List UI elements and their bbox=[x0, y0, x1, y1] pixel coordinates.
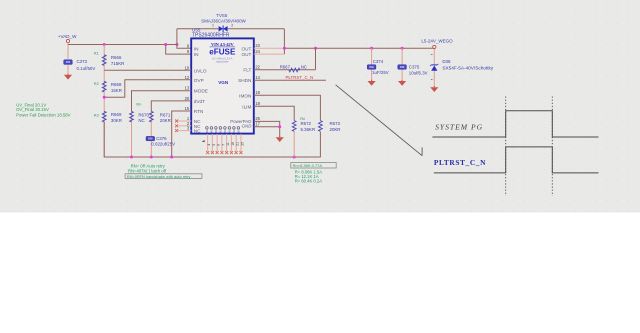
svg-text:IN: IN bbox=[194, 46, 199, 51]
svg-text:20KR: 20KR bbox=[330, 127, 341, 132]
svg-text:SX54F-5A-40V/Schottky: SX54F-5A-40V/Schottky bbox=[442, 66, 493, 71]
wire TVS right bbox=[228, 28, 285, 30]
wire MODE bbox=[132, 91, 192, 112]
note Rn currents bbox=[291, 163, 336, 184]
svg-text:17: 17 bbox=[255, 122, 260, 127]
callout line bbox=[336, 85, 423, 156]
svg-text:DNI: DNI bbox=[369, 65, 374, 69]
svg-text:OUT: OUT bbox=[241, 52, 251, 57]
svg-text:Rn=5.36K 0.77A: Rn=5.36K 0.77A bbox=[293, 163, 323, 168]
node pad-gnd bbox=[278, 125, 281, 128]
svg-text:20: 20 bbox=[185, 96, 190, 101]
svg-text:DNI: DNI bbox=[400, 65, 405, 69]
svg-text:NC: NC bbox=[225, 129, 227, 133]
wire ground bus bbox=[104, 122, 320, 157]
ground C375 bbox=[398, 80, 406, 86]
node OUT-C375 bbox=[401, 47, 404, 50]
node rail-TVS bbox=[175, 43, 178, 46]
svg-text:TVS5: TVS5 bbox=[216, 13, 228, 18]
resistor R667 bbox=[280, 64, 307, 72]
waveform SYSTEM PG bbox=[432, 111, 598, 137]
svg-text:15KR: 15KR bbox=[111, 88, 122, 93]
svg-text:NC: NC bbox=[211, 129, 213, 133]
node label R1 bbox=[94, 50, 99, 55]
ground bbox=[64, 74, 72, 80]
svg-text:C375: C375 bbox=[409, 65, 420, 70]
svg-text:NC: NC bbox=[234, 129, 236, 133]
svg-text:15: 15 bbox=[185, 106, 190, 111]
label PLTRST_C_N wave bbox=[434, 158, 486, 167]
svg-text:UVLO: UVLO bbox=[194, 68, 207, 73]
power flag L5-24V_WEGO bbox=[421, 39, 453, 49]
svg-text:MODE: MODE bbox=[194, 89, 208, 94]
svg-text:adjustable: adjustable bbox=[216, 59, 229, 63]
svg-text:13: 13 bbox=[185, 86, 190, 91]
node label Rn ilim bbox=[300, 116, 305, 121]
node label R3 bbox=[94, 112, 99, 117]
svg-text:7: 7 bbox=[221, 144, 225, 146]
wire dVdT bbox=[151, 101, 191, 111]
svg-text:12: 12 bbox=[185, 75, 190, 80]
svg-text:NC: NC bbox=[301, 65, 307, 70]
svg-text:NC: NC bbox=[238, 129, 240, 133]
label SYSTEM PG bbox=[435, 122, 483, 131]
wire R666 column bbox=[103, 45, 105, 158]
svg-text:DNI: DNI bbox=[148, 137, 153, 141]
svg-text:10uf/6.3V: 10uf/6.3V bbox=[409, 70, 428, 75]
pin names left bbox=[194, 46, 208, 133]
wire R672 bottom bbox=[293, 131, 295, 157]
svg-text:Rn: Rn bbox=[136, 102, 141, 107]
svg-text:NC: NC bbox=[138, 118, 144, 123]
svg-text:11: 11 bbox=[226, 142, 230, 146]
wire UVLO bbox=[104, 69, 191, 71]
pin names right bbox=[230, 46, 252, 128]
svg-text:C374: C374 bbox=[373, 59, 384, 64]
wire +VAD rail bbox=[68, 44, 177, 46]
svg-text:C376: C376 bbox=[156, 136, 167, 141]
svg-text:R667: R667 bbox=[280, 64, 291, 69]
wire TVS left bbox=[177, 28, 219, 30]
resistor R672 bbox=[292, 121, 315, 133]
svg-text:2: 2 bbox=[231, 24, 233, 28]
svg-text:+VAD_W: +VAD_W bbox=[58, 34, 77, 39]
resistor R666 bbox=[102, 55, 124, 66]
wire SHDN bbox=[254, 79, 326, 81]
wire PowerPAD pin25 bbox=[254, 121, 280, 137]
svg-text:5.36KR: 5.36KR bbox=[301, 127, 316, 132]
svg-text:VGN: VGN bbox=[218, 80, 229, 85]
svg-text:Power Fail Detection 18.58V: Power Fail Detection 18.58V bbox=[16, 113, 71, 118]
svg-text:FLT: FLT bbox=[243, 68, 251, 73]
svg-text:R1: R1 bbox=[94, 50, 99, 55]
svg-text:5: 5 bbox=[212, 144, 216, 146]
capacitor C373 bbox=[64, 59, 96, 71]
IC bottom GND pins bbox=[202, 134, 245, 154]
ground C374 bbox=[368, 80, 376, 86]
wire FLT bbox=[254, 48, 316, 69]
svg-text:14: 14 bbox=[255, 75, 260, 80]
svg-text:R670: R670 bbox=[138, 112, 149, 117]
wire TVS out vertical bbox=[283, 29, 285, 54]
node OUT-TVS bbox=[283, 47, 286, 50]
node rail-pin9 bbox=[164, 43, 167, 46]
svg-text:D38: D38 bbox=[442, 59, 451, 64]
node bus-R671 bbox=[150, 156, 153, 159]
svg-text:PLTRST_C_N: PLTRST_C_N bbox=[286, 75, 314, 80]
op-amp U55 eFuse IC body bbox=[191, 28, 254, 134]
wire D38 column bbox=[431, 49, 434, 87]
svg-text:OUT: OUT bbox=[241, 46, 251, 51]
svg-text:RN=0RFN handshake with auto re: RN=0RFN handshake with auto retry bbox=[127, 174, 191, 179]
capacitor C376 bbox=[146, 136, 175, 147]
wire pin8 branch bbox=[177, 29, 191, 49]
svg-text:RN= 0R Auto retry: RN= 0R Auto retry bbox=[131, 163, 166, 168]
wire pin23 stub bbox=[254, 47, 285, 49]
resistor R673 bbox=[319, 121, 341, 133]
svg-text:0.1uf/50V: 0.1uf/50V bbox=[77, 66, 96, 71]
resistor R670 bbox=[130, 111, 150, 123]
svg-text:25: 25 bbox=[255, 116, 260, 121]
node bus-R670 bbox=[130, 156, 133, 159]
wire +VAD_W column bbox=[67, 43, 69, 75]
wire pin24 stub bbox=[254, 53, 285, 55]
svg-text:L5-24V_WEGO: L5-24V_WEGO bbox=[421, 39, 453, 44]
resistor R671 bbox=[149, 111, 170, 123]
svg-text:PLTRST_C_N: PLTRST_C_N bbox=[434, 158, 486, 167]
svg-text:IMON: IMON bbox=[239, 93, 251, 98]
wire GND pin17 bbox=[254, 126, 280, 128]
svg-text:NC: NC bbox=[194, 129, 201, 134]
node OUT-C374 bbox=[370, 47, 373, 50]
svg-text:SYSTEM PG: SYSTEM PG bbox=[435, 122, 483, 131]
svg-text:R666: R666 bbox=[111, 55, 122, 60]
svg-text:10: 10 bbox=[185, 65, 190, 70]
svg-text:1uF/25V: 1uF/25V bbox=[372, 70, 389, 75]
svg-text:C373: C373 bbox=[77, 59, 88, 64]
wire C374 column bbox=[371, 48, 373, 80]
timing guide right bbox=[551, 97, 553, 197]
svg-text:TPS26400RHFR: TPS26400RHFR bbox=[192, 33, 230, 39]
svg-text:R2: R2 bbox=[94, 81, 99, 86]
svg-text:R669: R669 bbox=[111, 112, 122, 117]
node label R2 bbox=[94, 81, 99, 86]
svg-text:dVdT: dVdT bbox=[194, 99, 205, 104]
wire C375 column bbox=[401, 48, 403, 80]
wire IMON bbox=[254, 95, 321, 120]
power flag +VAD_W bbox=[58, 34, 77, 43]
capacitor C375 bbox=[398, 65, 428, 76]
svg-text:R668: R668 bbox=[111, 82, 122, 87]
wire OVP bbox=[104, 80, 191, 97]
svg-text:18: 18 bbox=[255, 90, 260, 95]
node bus-R672 bbox=[293, 156, 296, 159]
svg-text:R671: R671 bbox=[160, 112, 171, 117]
svg-text:715KR: 715KR bbox=[111, 61, 124, 66]
svg-text:NC: NC bbox=[207, 129, 209, 133]
svg-text:VIN 4.5-42V: VIN 4.5-42V bbox=[211, 42, 234, 47]
svg-text:GND: GND bbox=[242, 124, 253, 129]
diode D38 bbox=[430, 59, 494, 71]
svg-text:IN: IN bbox=[194, 52, 199, 57]
svg-text:NC: NC bbox=[220, 129, 222, 133]
wire R670 column bbox=[131, 111, 133, 157]
timing guide left bbox=[505, 97, 507, 197]
svg-text:R3: R3 bbox=[94, 112, 99, 117]
svg-text:22: 22 bbox=[255, 65, 260, 70]
node bus-RTN bbox=[170, 156, 173, 159]
svg-text:16: 16 bbox=[231, 142, 235, 146]
svg-text:OVP: OVP bbox=[194, 78, 204, 83]
svg-text:23: 23 bbox=[255, 43, 260, 48]
wire RTN bbox=[172, 111, 192, 157]
node label Rn mode bbox=[136, 102, 141, 107]
svg-text:RTN: RTN bbox=[194, 109, 204, 114]
svg-text:1: 1 bbox=[212, 24, 214, 28]
svg-text:SMAJ36CA/36V/400W: SMAJ36CA/36V/400W bbox=[201, 19, 246, 24]
pin numbers right bbox=[255, 43, 260, 126]
IC bottom NC pads bbox=[206, 127, 241, 133]
svg-text:19: 19 bbox=[255, 101, 260, 106]
svg-text:eFUSE: eFUSE bbox=[209, 48, 236, 57]
svg-text:6: 6 bbox=[217, 144, 221, 146]
capacitor C374 bbox=[367, 59, 388, 75]
note UV/OV bbox=[16, 102, 71, 117]
svg-text:25: 25 bbox=[240, 142, 244, 146]
svg-text:30KR: 30KR bbox=[111, 118, 122, 123]
svg-text:SHDN: SHDN bbox=[238, 78, 251, 83]
resistor R669 bbox=[102, 111, 122, 123]
TVS diode TVS5 bbox=[201, 13, 246, 32]
node OUT-R667 bbox=[314, 47, 317, 50]
NC pins 1-3 bbox=[175, 120, 191, 133]
wire ILIM bbox=[254, 106, 294, 120]
node OVP tap bbox=[103, 96, 106, 99]
waveform PLTRST_C_N bbox=[434, 147, 599, 173]
svg-text:R673: R673 bbox=[330, 121, 341, 126]
svg-text:OV_Final 30.15V: OV_Final 30.15V bbox=[16, 107, 49, 112]
svg-text:R672: R672 bbox=[301, 121, 312, 126]
wire pin9 branch bbox=[166, 45, 192, 55]
svg-text:NC: NC bbox=[216, 129, 218, 133]
svg-text:NC: NC bbox=[229, 129, 231, 133]
pin numbers left bbox=[185, 43, 190, 130]
svg-text:ILIM: ILIM bbox=[242, 104, 251, 109]
svg-text:20KR: 20KR bbox=[160, 118, 171, 123]
svg-text:24: 24 bbox=[255, 49, 260, 54]
node rail-R666 bbox=[103, 43, 106, 46]
ground D38 bbox=[430, 86, 438, 92]
svg-text:21: 21 bbox=[236, 142, 240, 146]
resistor R668 bbox=[102, 81, 122, 93]
svg-text:Rn: Rn bbox=[300, 116, 305, 121]
svg-text:R= 60.4K 0.2A: R= 60.4K 0.2A bbox=[295, 179, 323, 184]
wire R671 column bbox=[150, 111, 152, 157]
node PLTRST_C_N bbox=[286, 75, 314, 80]
note RN auto retry bbox=[125, 163, 202, 179]
svg-text:4: 4 bbox=[207, 144, 211, 146]
ground powerpad bbox=[276, 136, 284, 142]
svg-text:DNI: DNI bbox=[66, 60, 71, 64]
wire OUT rail bbox=[284, 47, 434, 48]
